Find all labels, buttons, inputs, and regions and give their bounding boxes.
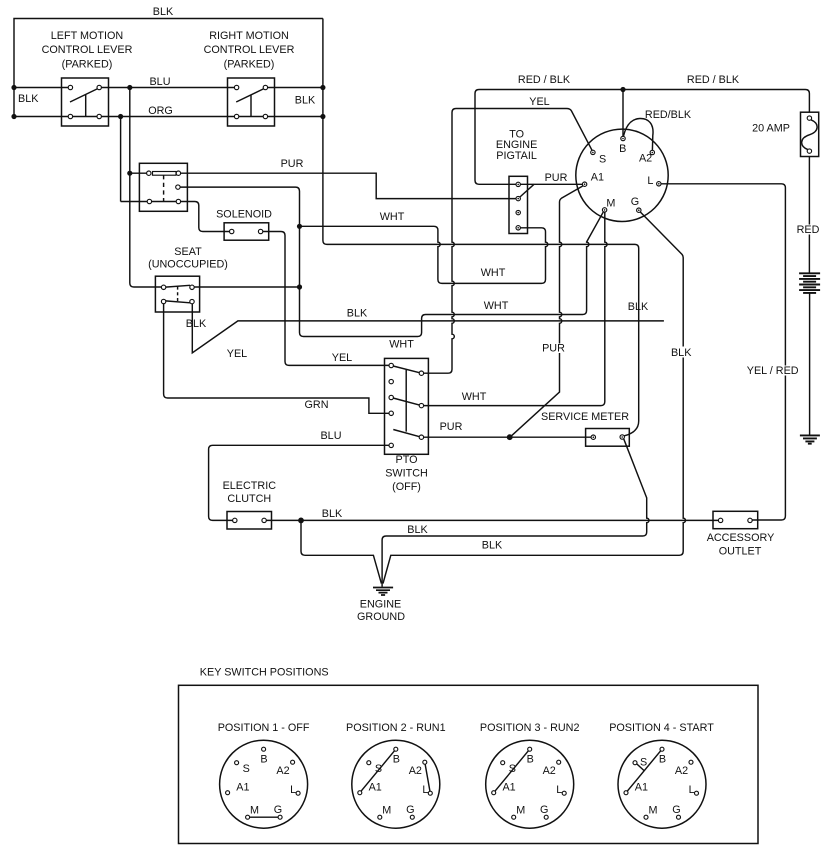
svg-text:BLK: BLK [407,524,428,536]
wire BLK seat to G line [192,304,664,353]
svg-text:(OFF): (OFF) [392,481,421,493]
svg-text:A2: A2 [543,765,556,777]
svg-text:BLK: BLK [322,508,343,520]
accessory outlet box [713,511,758,528]
svg-text:BLK: BLK [671,347,692,359]
svg-text:B: B [260,754,267,766]
wire ORG drop to relay [121,117,177,202]
svg-text:SOLENOID: SOLENOID [216,208,272,220]
svg-text:L: L [290,784,296,796]
svg-text:M: M [516,804,525,816]
svg-text:S: S [599,153,606,165]
svg-text:A1: A1 [236,782,249,794]
wire RED/BLK feed to key A1 and fuse [475,90,809,185]
wire WHT relay to M (via seat rail) [180,187,603,336]
key position 3 A1-B link [494,749,530,793]
relay K1 terminals [147,171,151,175]
engine pigtail connector box [509,176,528,233]
svg-text:WHT: WHT [462,391,487,403]
seat switch terminals [161,285,165,289]
svg-text:ENGINE: ENGINE [360,599,401,611]
svg-text:GRN: GRN [305,399,329,411]
service meter terminals [591,435,595,439]
relay K1 box [139,163,187,211]
svg-text:WHT: WHT [389,339,414,351]
key position 4 terminals [660,747,664,751]
svg-text:POSITION 3 - RUN2: POSITION 3 - RUN2 [480,722,580,734]
svg-text:LEFT MOTION: LEFT MOTION [51,30,123,42]
key position 3 terminals [528,747,532,751]
svg-text:POSITION 2 - RUN1: POSITION 2 - RUN1 [346,722,446,734]
svg-text:S: S [640,757,647,769]
svg-text:G: G [274,804,282,816]
svg-text:WHT: WHT [481,267,506,279]
wire GRN seat to PTO T4 [164,304,390,414]
svg-text:BLK: BLK [347,308,368,320]
label wire RED [797,225,822,235]
wire PUR PTO C to service meter [424,436,592,438]
svg-text:(PARKED): (PARKED) [62,59,113,71]
key position 2 A1-B and A2-L links [360,749,431,793]
switch S1 lever [70,88,99,117]
svg-text:L: L [422,784,428,796]
svg-text:BLU: BLU [320,430,341,442]
svg-text:M: M [250,804,259,816]
fuse F1 box [801,112,819,156]
svg-text:PUR: PUR [281,158,304,170]
wire BLK clutch dot to engine ground [301,520,381,583]
wire PUR relay to pigtail T2 [181,173,516,198]
svg-text:BLK: BLK [153,6,174,18]
svg-text:POSITION 1 - OFF: POSITION 1 - OFF [218,722,310,734]
svg-text:A2: A2 [409,765,422,777]
node junction dot clutch [298,518,304,524]
svg-text:B: B [527,754,534,766]
svg-text:L: L [689,784,695,796]
engine pigtail terminals T1-T4 [516,182,520,186]
svg-text:PIGTAIL: PIGTAIL [496,150,537,162]
svg-text:RED/BLK: RED/BLK [645,109,692,121]
svg-text:B: B [659,754,666,766]
svg-text:ELECTRIC: ELECTRIC [223,480,277,492]
svg-text:WHT: WHT [484,300,509,312]
key position 1 circle [220,740,308,828]
relay K1 dashed actuator [163,175,165,201]
relay K1 coil bar [153,172,177,176]
svg-text:M: M [649,804,658,816]
svg-text:YEL / RED: YEL / RED [747,365,799,377]
key position 4 A1-B link and S tick [626,749,662,793]
svg-text:CONTROL LEVER: CONTROL LEVER [204,44,295,56]
node junction dot ORG branch [118,114,123,119]
key position 2 circle [352,740,440,828]
svg-text:BLK: BLK [18,93,39,105]
wire RED/BLK jumper B to A2 [624,118,653,150]
wire relay to solenoid [181,202,230,232]
svg-text:PTO: PTO [396,454,418,466]
svg-text:GROUND: GROUND [357,611,405,623]
svg-text:PUR: PUR [542,343,565,355]
fuse F1 terminals [807,116,811,120]
wire YEL key S to PTO A [424,109,593,374]
switch S1 terminals [68,85,72,89]
svg-text:WHT: WHT [380,211,405,223]
svg-text:B: B [393,754,400,766]
PTO switch box [385,358,429,454]
wire T2 diagonal to A1 line [520,184,534,197]
svg-text:A1: A1 [502,782,515,794]
svg-text:G: G [540,804,548,816]
ground (battery) [800,435,820,443]
svg-text:SWITCH: SWITCH [385,468,428,480]
key switch terminals [591,150,595,154]
svg-text:G: G [631,196,639,208]
svg-text:A2: A2 [675,765,688,777]
seat switch box [155,276,199,312]
wire WHT PTO B to key M [424,212,607,406]
svg-text:RED / BLK: RED / BLK [687,74,740,86]
svg-text:S: S [375,763,382,775]
svg-text:POSITION 4 - START: POSITION 4 - START [609,722,714,734]
svg-text:YEL: YEL [332,352,352,364]
svg-text:BLK: BLK [482,540,503,552]
label wire YEL / RED [745,366,800,376]
key position 1 M-G link [248,816,281,818]
node junction dot WHT/seat branch [297,284,302,289]
svg-text:S: S [509,763,516,775]
service meter box [586,429,630,447]
svg-text:RED: RED [797,224,820,236]
wire PUR key A1 to service meter [512,186,583,436]
svg-text:RIGHT MOTION: RIGHT MOTION [209,30,289,42]
wire YEL solenoid to PTO T1 [263,232,389,366]
key switch U1 circle [576,129,668,221]
svg-text:A1: A1 [369,782,382,794]
svg-text:A2: A2 [639,153,652,165]
switch S2 terminals [234,85,238,89]
node junction dots right rail [320,85,325,90]
key position 3 circle [486,740,574,828]
svg-text:BLU: BLU [149,76,170,88]
electric clutch box [227,512,272,530]
svg-text:G: G [672,804,680,816]
svg-text:ACCESSORY: ACCESSORY [707,532,775,544]
seat switch dashed actuator [177,286,179,301]
fuse F1 element [802,120,817,150]
node junction dots left rail [11,85,16,90]
wire WHT branch to seat common [194,286,299,288]
svg-text:PUR: PUR [440,421,463,433]
seat switch levers [166,285,191,303]
accessory outlet terminals [718,518,722,522]
node junction dot PUR [507,434,513,440]
svg-text:YEL: YEL [529,96,549,108]
key position 1 terminals [262,747,266,751]
wire YEL/RED key L to accessory outlet [661,184,786,520]
label wire BLK (G drop) [668,347,694,358]
key switch positions panel box [179,685,759,843]
switch S1 left motion control lever box [62,78,109,126]
svg-text:M: M [606,198,615,210]
key position 4 circle [618,740,706,828]
svg-text:BLK: BLK [186,318,207,330]
svg-text:KEY SWITCH POSITIONS: KEY SWITCH POSITIONS [200,666,329,678]
svg-text:S: S [243,763,250,775]
solenoid terminals [230,229,234,233]
ground engine (symbol) [373,588,393,596]
wire BLU PTO to electric clutch [209,445,390,520]
wire BLK service meter to engine ground [382,439,649,587]
svg-text:B: B [619,143,626,155]
svg-text:A2: A2 [276,765,289,777]
key position 2 terminals [394,747,398,751]
wire RED fuse to battery [808,157,810,274]
svg-text:M: M [382,804,391,816]
svg-text:SERVICE METER: SERVICE METER [541,411,629,423]
wire BLK top-rect to service meter [323,19,639,436]
wire RED/BLK key B drop [622,90,624,137]
svg-text:L: L [647,175,653,187]
PTO switch right terminals [419,371,423,375]
svg-text:CLUTCH: CLUTCH [227,493,271,505]
wire battery to ground [809,293,811,435]
svg-text:OUTLET: OUTLET [719,546,762,558]
svg-text:CONTROL LEVER: CONTROL LEVER [42,44,133,56]
wire BLU bus [14,87,323,89]
battery BT1 [799,273,820,293]
wire BLK key G to engine ground [383,212,686,584]
wire relay coil feed [130,172,147,174]
electric clutch terminals [233,518,237,522]
svg-text:ORG: ORG [148,105,173,117]
svg-text:BLK: BLK [295,95,316,107]
PTO switch left terminals [389,363,393,367]
wire BLU drop to relay and seat [130,88,162,288]
svg-text:RED / BLK: RED / BLK [518,74,571,86]
solenoid box [224,223,269,240]
svg-text:SEAT: SEAT [174,246,202,258]
svg-text:A1: A1 [635,782,648,794]
switch S2 lever [236,88,265,117]
svg-text:G: G [406,804,414,816]
node junction dot BLU branch [127,85,132,90]
svg-text:(PARKED): (PARKED) [224,59,275,71]
svg-text:L: L [556,784,562,796]
svg-text:A1: A1 [591,172,604,184]
wire WHT branch to engine pigtail T4 [300,226,548,283]
wire BLK top loop [14,19,323,117]
svg-text:PUR: PUR [545,172,568,184]
svg-text:20 AMP: 20 AMP [752,123,790,135]
PTO switch levers [391,366,421,438]
node junction dot key B feed [620,87,625,92]
label wire PUR (A1 drop) [543,344,564,354]
node junction dot WHT/pigtail branch [297,224,302,229]
wire BLK clutch to accessory outlet [266,519,718,521]
svg-text:(UNOCCUPIED): (UNOCCUPIED) [148,259,228,271]
svg-text:BLK: BLK [628,301,649,313]
wire ORG bus [14,116,323,118]
node junction dot relay coil branch [127,171,132,176]
svg-text:YEL: YEL [227,348,247,360]
switch S2 right motion control lever box [228,78,275,126]
